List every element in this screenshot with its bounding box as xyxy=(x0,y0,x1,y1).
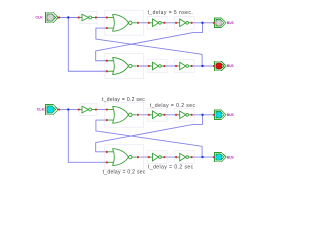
svg-text:CLK: CLK xyxy=(35,16,43,20)
svg-text:t_delay = 5 nsec.: t_delay = 5 nsec. xyxy=(148,10,194,16)
svg-text:BUS: BUS xyxy=(227,155,234,159)
svg-text:t_delay = 0.2 sec: t_delay = 0.2 sec xyxy=(150,103,196,109)
svg-text:t_delay = 0.2 sec: t_delay = 0.2 sec xyxy=(148,165,194,171)
svg-text:t_delay = 0.2 sec: t_delay = 0.2 sec xyxy=(103,170,146,176)
svg-text:BUS: BUS xyxy=(227,64,234,68)
svg-text:BUS: BUS xyxy=(227,21,234,25)
svg-text:BUS: BUS xyxy=(227,113,234,117)
svg-text:CLK1: CLK1 xyxy=(37,108,46,112)
svg-text:t_delay = 0.2 sec: t_delay = 0.2 sec xyxy=(102,97,145,103)
